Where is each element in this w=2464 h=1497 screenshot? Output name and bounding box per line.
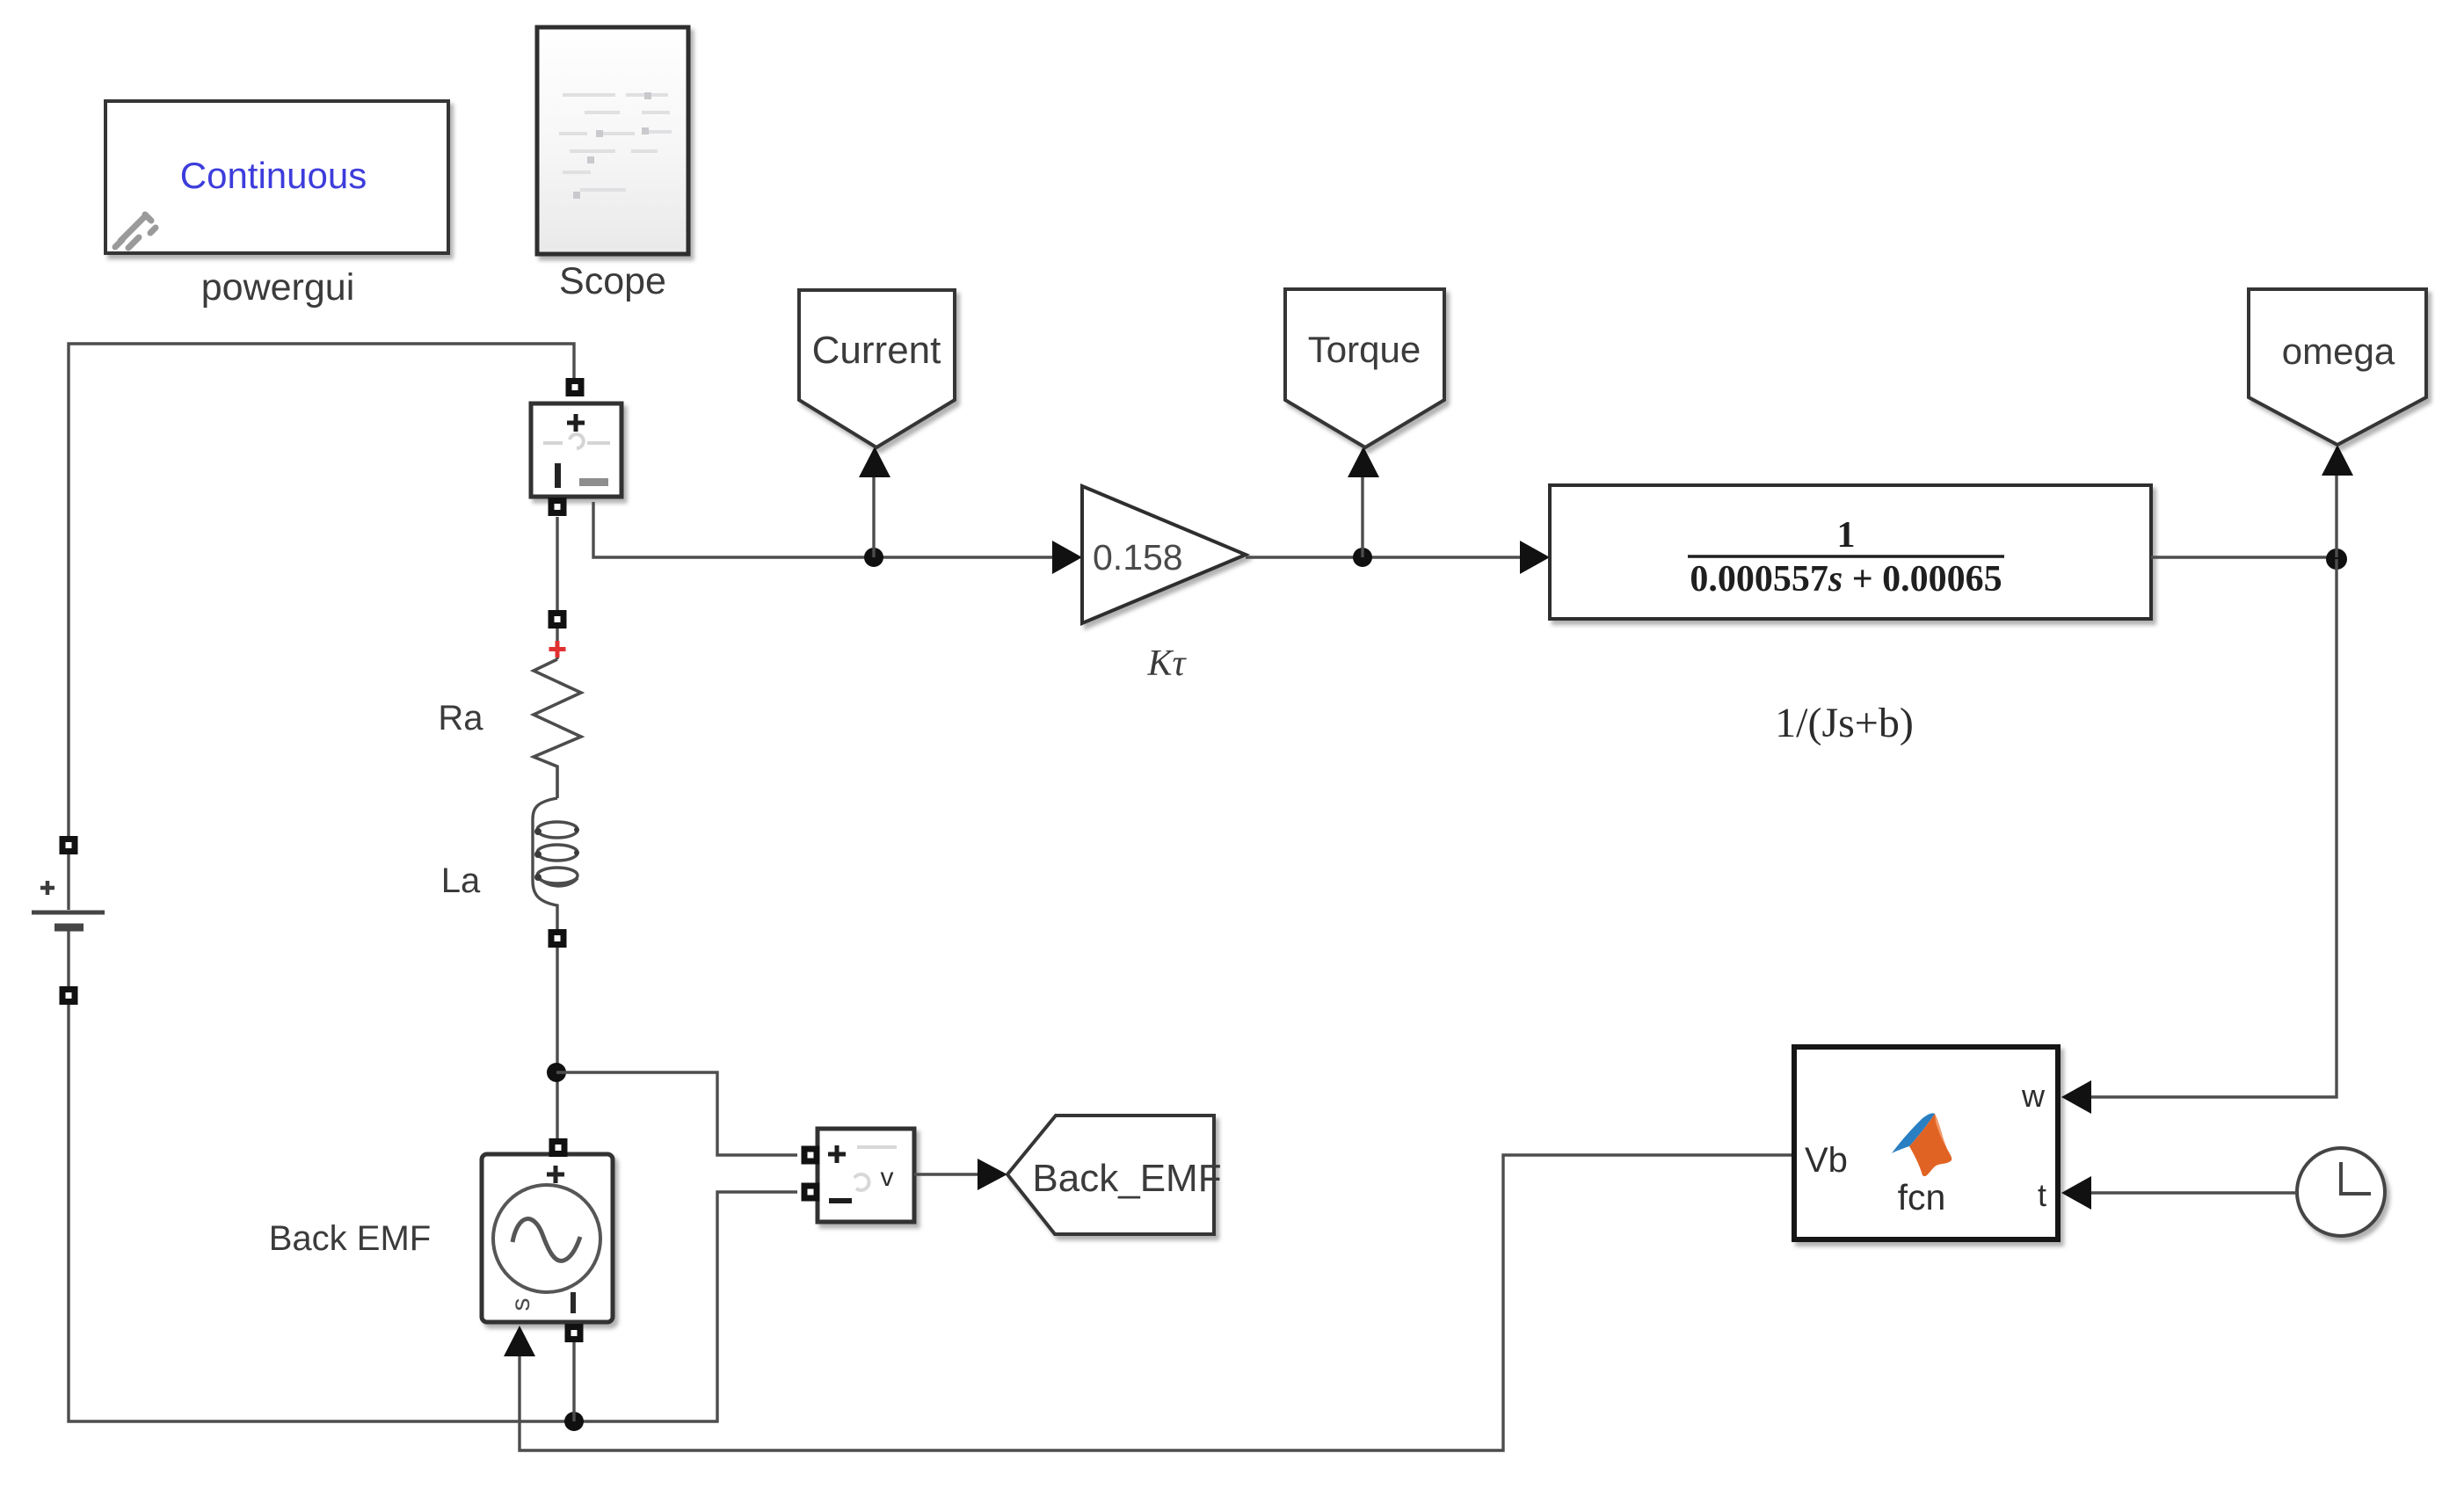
svg-text:fcn: fcn <box>1898 1177 1946 1217</box>
svg-text:1: 1 <box>1837 515 1856 556</box>
svg-text:powergui: powergui <box>201 266 355 309</box>
svg-text:Kτ: Kτ <box>1146 643 1187 684</box>
Back_EMF goto tag <box>1007 1115 1222 1234</box>
arrowhead into Torque tag <box>1348 447 1379 477</box>
node current junction <box>864 548 883 567</box>
gain Kt block <box>1082 486 1246 623</box>
svg-text:w: w <box>2021 1078 2046 1114</box>
arrowhead into s input <box>504 1326 535 1356</box>
MATLAB logo <box>1892 1113 1952 1176</box>
wire transfer fn to omega node <box>2151 556 2337 558</box>
svg-text:Current: Current <box>812 329 941 372</box>
wire battery bottom to voltmeter minus <box>69 1005 797 1421</box>
wire fcn Vb output to Back EMF s input <box>520 1155 1792 1450</box>
svg-text:Continuous: Continuous <box>180 155 367 196</box>
node omega junction <box>2326 549 2347 570</box>
svg-text:t: t <box>2038 1177 2046 1213</box>
wire voltmeter output <box>914 1173 978 1175</box>
wire Back EMF minus port down to bottom node <box>572 1342 575 1421</box>
wire omega feedback to fcn w <box>2091 559 2337 1097</box>
svg-text:La: La <box>441 861 481 900</box>
powergui block <box>105 101 448 253</box>
svg-text:Scope: Scope <box>559 260 666 302</box>
arrowhead into Back_EMF tag <box>978 1159 1007 1190</box>
Current goto tag <box>799 290 955 447</box>
wire clock to fcn t <box>2091 1191 2297 1194</box>
arrowhead into fcn w port <box>2061 1080 2091 1114</box>
MATLAB function block fcn <box>1794 1047 2058 1239</box>
Scope block <box>537 27 688 254</box>
node Back EMF minus junction <box>564 1412 584 1431</box>
wire up to omega tag <box>2335 475 2337 557</box>
arrowhead into fcn t port <box>2061 1176 2091 1210</box>
svg-text:Ra: Ra <box>438 699 483 738</box>
wire armature node to voltmeter plus <box>556 1072 797 1155</box>
Ra branch top port <box>549 610 567 629</box>
node torque junction <box>1353 548 1372 567</box>
current measurement block <box>531 378 621 516</box>
svg-text:v: v <box>881 1163 894 1192</box>
arrowhead into Current tag <box>859 447 890 477</box>
svg-text:Torque: Torque <box>1308 329 1421 370</box>
arrowhead into omega tag <box>2322 445 2353 476</box>
Back EMF controlled voltage source block <box>482 1138 613 1342</box>
svg-text:omega: omega <box>2282 331 2395 372</box>
node armature junction <box>547 1063 566 1082</box>
svg-text:1/(Js+b): 1/(Js+b) <box>1775 700 1914 746</box>
arrowhead into gain <box>1052 541 1082 574</box>
inductor La <box>533 798 578 930</box>
red polarity plus <box>549 641 566 658</box>
wire CM output to gain <box>593 502 1079 557</box>
transfer fn block 1/(Js+b) <box>1550 485 2151 619</box>
svg-text:Back EMF: Back EMF <box>269 1219 431 1258</box>
svg-text:Back_EMF: Back_EMF <box>1032 1157 1221 1200</box>
wire gain to transfer fn <box>1246 556 1520 558</box>
wire CM to Ra branch <box>556 517 558 659</box>
svg-text:0.158: 0.158 <box>1093 537 1183 578</box>
clock block <box>2297 1148 2385 1236</box>
svg-text:Vb: Vb <box>1805 1141 1848 1180</box>
wire battery to current measurement (top-left loop) <box>69 344 574 837</box>
Torque goto tag <box>1285 289 1444 447</box>
svg-text:s: s <box>506 1298 535 1312</box>
voltage measurement block <box>802 1129 915 1222</box>
La branch bottom port <box>549 929 567 948</box>
DC voltage source battery <box>32 836 105 1005</box>
wire up to Current tag <box>872 475 875 557</box>
arrowhead into transfer fn <box>1520 541 1550 574</box>
wire up to Torque tag <box>1361 475 1363 557</box>
omega goto tag <box>2249 289 2426 445</box>
svg-text:0.000557s + 0.00065: 0.000557s + 0.00065 <box>1690 559 2002 600</box>
wire La to Back EMF source <box>556 948 558 1143</box>
resistor Ra <box>534 659 581 798</box>
